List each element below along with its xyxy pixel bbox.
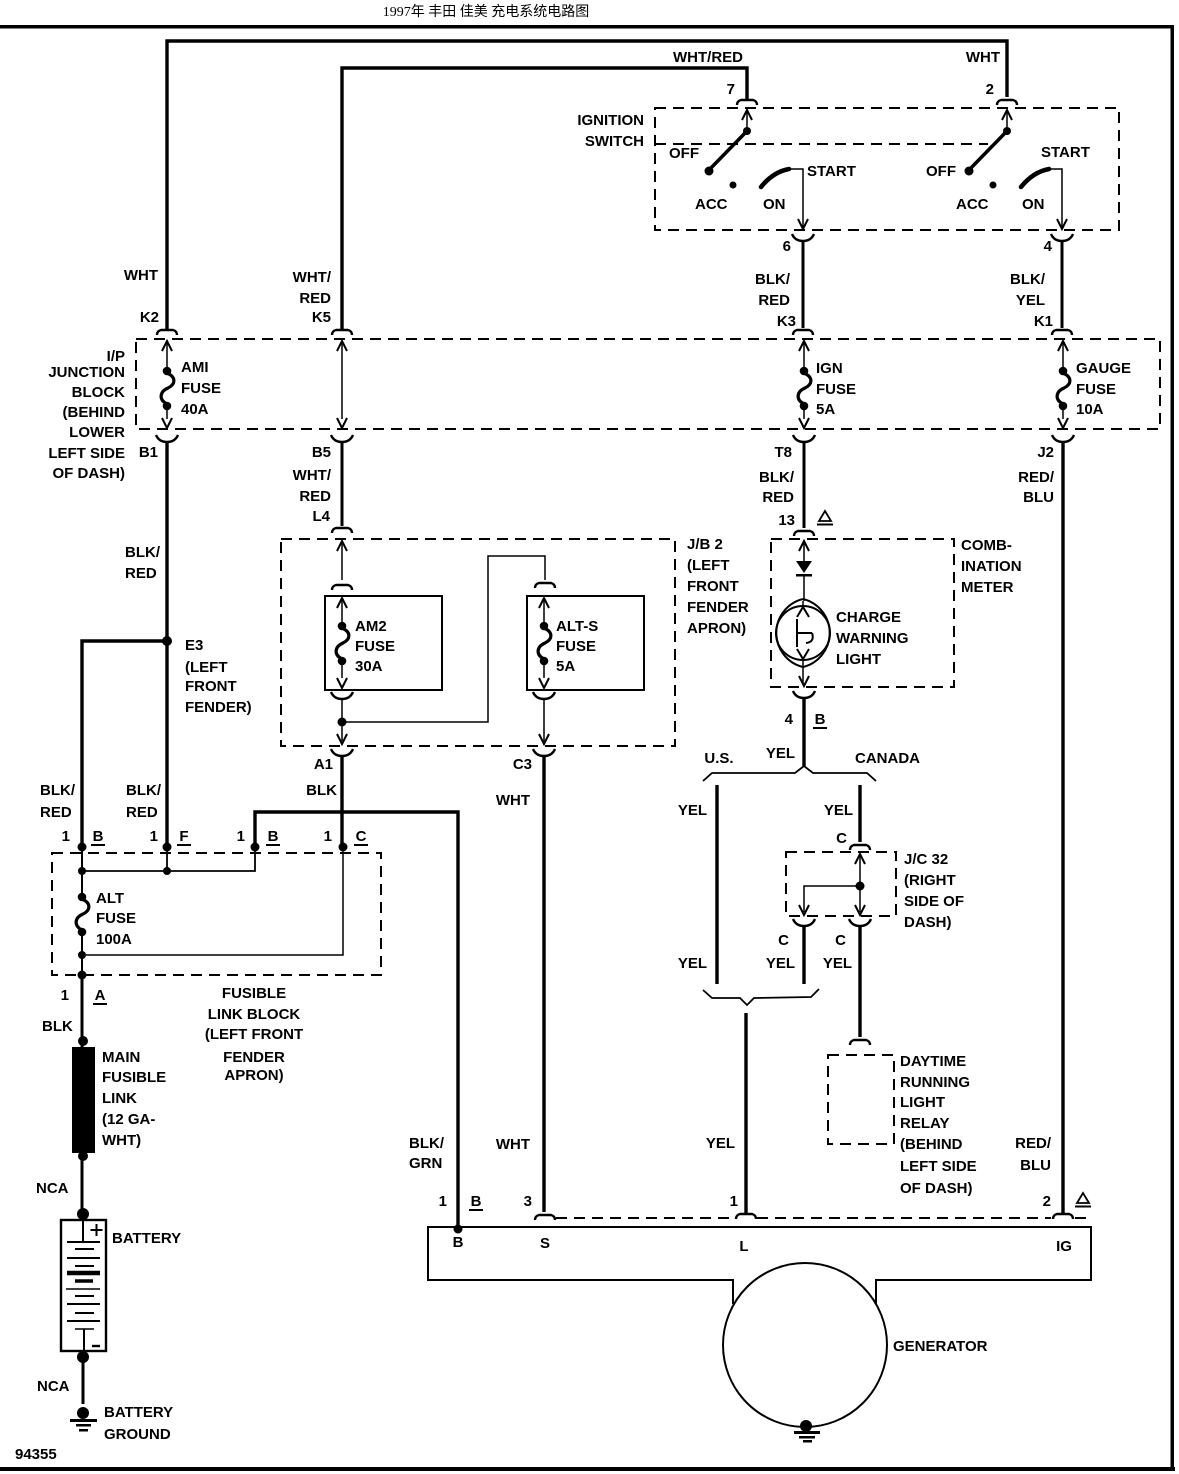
svg-text:FUSIBLE: FUSIBLE (102, 1069, 166, 1086)
svg-text:L: L (739, 1238, 748, 1255)
svg-text:FENDER: FENDER (223, 1049, 285, 1066)
svg-text:FUSE: FUSE (355, 638, 395, 655)
svg-text:IGNITION: IGNITION (577, 112, 644, 129)
fuse ALT-S 5A (538, 598, 551, 688)
svg-text:4: 4 (1044, 238, 1053, 255)
svg-text:GRN: GRN (409, 1155, 442, 1172)
AM2 fuse box (325, 596, 442, 690)
connector J2 (1052, 435, 1074, 442)
svg-text:APRON): APRON) (687, 620, 746, 637)
wire stub 1F to bus (166, 849, 168, 871)
svg-text:FUSE: FUSE (816, 381, 856, 398)
ALT-S fuse box (527, 596, 644, 690)
svg-text:INATION: INATION (961, 558, 1022, 575)
svg-text:GENERATOR: GENERATOR (893, 1338, 988, 1355)
svg-text:LIGHT: LIGHT (900, 1094, 945, 1111)
svg-text:B5: B5 (312, 444, 331, 461)
node bus junction at ALT fuse (78, 867, 86, 875)
svg-text:4: 4 (785, 711, 794, 728)
node battery negative post (77, 1351, 89, 1363)
svg-text:FUSE: FUSE (96, 910, 136, 927)
wire WHT/RED from K5 to ignition switch terminal 7 (342, 68, 747, 330)
connector K3 (793, 330, 813, 335)
svg-text:METER: METER (961, 579, 1014, 596)
marker triangle A (13) (817, 511, 833, 525)
svg-text:FUSE: FUSE (181, 380, 221, 397)
wire BLK/YEL 4 to K1 (1061, 242, 1064, 328)
svg-text:BLK/: BLK/ (759, 469, 795, 486)
wire YEL left out (802, 927, 805, 984)
svg-text:LINK BLOCK: LINK BLOCK (208, 1006, 301, 1023)
wire YEL from B down to split (802, 699, 805, 766)
connector below ALT-S (533, 692, 555, 699)
svg-text:WHT/: WHT/ (293, 269, 332, 286)
svg-text:YEL: YEL (678, 802, 707, 819)
svg-text:L4: L4 (312, 508, 330, 525)
node terminal 1B (ALT fuse input) (78, 843, 87, 852)
svg-text:LOWER: LOWER (69, 424, 125, 441)
svg-text:FENDER): FENDER) (185, 699, 252, 716)
fusible link block label (205, 985, 303, 1084)
node junction C line / ALT output (78, 951, 86, 959)
ignition switch SW1 (left) (705, 110, 809, 229)
ignition switch box (655, 108, 1119, 230)
fuse IGN 5A (798, 341, 811, 428)
wire BLK/RED E3 branch left (82, 641, 167, 847)
svg-text:C: C (836, 830, 847, 847)
fuse GAUGE 10A (1057, 341, 1070, 428)
node terminal 1B (to generator B) (251, 843, 260, 852)
junction node below AM2 (338, 718, 347, 727)
connector daytime running light relay (850, 1040, 870, 1045)
svg-text:MAIN: MAIN (102, 1049, 140, 1066)
svg-text:FENDER: FENDER (687, 599, 749, 616)
svg-text:RED: RED (126, 804, 158, 821)
svg-text:ALT-S: ALT-S (556, 618, 598, 635)
wire YEL right out (858, 927, 861, 1037)
daytime running light relay box (828, 1055, 894, 1144)
svg-text:WHT/RED: WHT/RED (673, 49, 743, 66)
wire out of combination meter (799, 676, 809, 686)
svg-text:WHT): WHT) (102, 1132, 141, 1149)
connector terminal 2 (997, 100, 1017, 105)
svg-text:START: START (807, 163, 856, 180)
svg-text:BLK: BLK (306, 782, 337, 799)
svg-text:5A: 5A (816, 401, 835, 418)
J/B 2 label (687, 536, 749, 637)
svg-text:T8: T8 (774, 444, 792, 461)
J/B 2 box (281, 539, 675, 746)
svg-text:C: C (778, 932, 789, 949)
svg-text:OFF: OFF (669, 145, 699, 162)
generator connector dashed line (556, 1217, 1091, 1219)
svg-text:1997年 丰田 佳美 充电系统电路图: 1997年 丰田 佳美 充电系统电路图 (383, 4, 590, 20)
svg-text:DAYTIME: DAYTIME (900, 1053, 966, 1070)
svg-text:YEL: YEL (766, 745, 795, 762)
generator circle (723, 1263, 887, 1427)
svg-text:S: S (540, 1235, 550, 1252)
connector A1 (331, 749, 353, 756)
svg-text:I/P: I/P (107, 348, 125, 365)
charge warning light bulb (776, 599, 830, 684)
svg-text:B: B (93, 828, 104, 845)
wire AM2 node to J/B2 bottom (341, 726, 343, 741)
svg-text:1: 1 (324, 828, 332, 845)
svg-text:A: A (95, 987, 106, 1004)
svg-text:K3: K3 (777, 313, 796, 330)
svg-text:LINK: LINK (102, 1090, 137, 1107)
svg-text:BLU: BLU (1020, 1157, 1051, 1174)
svg-text:A1: A1 (314, 756, 333, 773)
fusible link block box (52, 853, 381, 975)
svg-text:NCA: NCA (37, 1378, 70, 1395)
svg-text:LEFT SIDE: LEFT SIDE (900, 1158, 977, 1175)
svg-text:C3: C3 (513, 756, 532, 773)
J/C 32 box (786, 852, 896, 916)
svg-text:2: 2 (986, 81, 994, 98)
wire generator B to fusible link B (255, 812, 458, 1227)
svg-text:RED: RED (758, 292, 790, 309)
wire K5 to B5 through block (337, 341, 347, 428)
svg-text:J/C 32: J/C 32 (904, 851, 948, 868)
connector B1 (156, 435, 178, 442)
wire WHT C3 down to generator S (542, 757, 545, 1212)
svg-text:1: 1 (237, 828, 245, 845)
svg-text:BLK: BLK (42, 1018, 73, 1035)
svg-text:U.S.: U.S. (704, 750, 733, 767)
wire YEL CANADA branch (858, 785, 861, 842)
svg-text:YEL: YEL (678, 955, 707, 972)
I/P junction block box (136, 339, 1160, 429)
svg-text:WARNING: WARNING (836, 630, 909, 647)
svg-text:C: C (356, 828, 367, 845)
connector K1 (1052, 330, 1072, 335)
ignition switch SW2 (right) (965, 110, 1068, 229)
wire WHT/RED B5 to L4 (341, 443, 344, 526)
svg-text:GROUND: GROUND (104, 1426, 171, 1443)
svg-text:YEL: YEL (823, 955, 852, 972)
svg-text:B: B (815, 711, 826, 728)
svg-text:JUNCTION: JUNCTION (48, 364, 125, 381)
node generator B terminal (454, 1225, 463, 1234)
svg-text:RUNNING: RUNNING (900, 1074, 970, 1091)
connector C (right out) (849, 919, 871, 926)
svg-text:100A: 100A (96, 931, 132, 948)
svg-text:YEL: YEL (766, 955, 795, 972)
node battery positive post (77, 1208, 89, 1220)
wire NCA battery to ground (82, 1357, 85, 1404)
node E3 (162, 636, 172, 646)
connector K2 (157, 330, 177, 335)
connector below AM2 (331, 692, 353, 699)
connector T8 (793, 435, 815, 442)
node splice above main fusible link (78, 1036, 88, 1046)
svg-text:IGN: IGN (816, 360, 843, 377)
svg-text:APRON): APRON) (224, 1067, 283, 1084)
svg-text:BLOCK: BLOCK (72, 384, 125, 401)
svg-text:40A: 40A (181, 401, 209, 418)
wire L4 into J/B2 (337, 541, 347, 580)
svg-text:ALT: ALT (96, 890, 124, 907)
svg-text:(LEFT: (LEFT (185, 659, 228, 676)
svg-text:30A: 30A (355, 658, 383, 675)
svg-text:E3: E3 (185, 637, 203, 654)
connector K5 (332, 330, 352, 335)
svg-text:FRONT: FRONT (185, 678, 237, 695)
svg-text:WHT/: WHT/ (293, 467, 332, 484)
svg-text:YEL: YEL (824, 802, 853, 819)
wire YEL U.S. branch (715, 785, 718, 984)
wire into combination meter (799, 541, 809, 561)
svg-text:(BEHIND: (BEHIND (63, 404, 126, 421)
svg-text:DASH): DASH) (904, 914, 952, 931)
page right border (1171, 25, 1175, 1471)
svg-text:ACC: ACC (695, 196, 728, 213)
svg-text:LEFT SIDE: LEFT SIDE (48, 445, 125, 462)
svg-text:FUSIBLE: FUSIBLE (222, 985, 286, 1002)
svg-text:BLK/: BLK/ (40, 782, 76, 799)
svg-text:94355: 94355 (15, 1446, 57, 1463)
svg-text:(RIGHT: (RIGHT (904, 872, 956, 889)
svg-text:13: 13 (778, 512, 795, 529)
svg-text:K5: K5 (312, 309, 331, 326)
svg-text:WHT: WHT (496, 792, 530, 809)
svg-text:K1: K1 (1034, 313, 1053, 330)
svg-text:2: 2 (1043, 1193, 1051, 1210)
svg-text:RED: RED (125, 565, 157, 582)
fuse AMI 40A (161, 341, 174, 428)
svg-text:RED: RED (299, 290, 331, 307)
J/C 32 internal wires (799, 854, 865, 915)
generator box (428, 1227, 1091, 1280)
svg-text:K2: K2 (140, 309, 159, 326)
svg-text:YEL: YEL (706, 1135, 735, 1152)
connector ALT-S holder (535, 583, 555, 588)
svg-text:OF DASH): OF DASH) (53, 465, 126, 482)
wire into ALT fuse (81, 849, 83, 897)
svg-text:(LEFT FRONT: (LEFT FRONT (205, 1026, 303, 1043)
svg-text:FUSE: FUSE (556, 638, 596, 655)
svg-text:BATTERY: BATTERY (112, 1230, 181, 1247)
svg-text:AMI: AMI (181, 359, 209, 376)
svg-text:WHT: WHT (124, 267, 158, 284)
wire BLK/RED T8 to 13 (803, 443, 806, 528)
svg-text:FRONT: FRONT (687, 578, 739, 595)
page bottom border (0, 1467, 1175, 1471)
connector AM2 holder (332, 585, 352, 590)
node splice below main fusible link (78, 1151, 88, 1161)
svg-text:BLK/: BLK/ (1010, 271, 1046, 288)
svg-text:C: C (835, 932, 846, 949)
wire internal bus (fusible link block) (82, 849, 255, 871)
svg-text:ON: ON (1022, 196, 1045, 213)
battery ground (70, 1407, 97, 1432)
wire BLK to battery (81, 975, 84, 1220)
connector C (left out) (793, 919, 815, 926)
svg-text:BLU: BLU (1023, 489, 1054, 506)
wire BLK/RED 6 to K3 (802, 242, 805, 328)
connector terminal 6 (792, 234, 814, 241)
wire feeder to ALT-S fuse (342, 556, 545, 722)
svg-text:3: 3 (524, 1193, 532, 1210)
svg-text:1: 1 (730, 1193, 738, 1210)
generator ground (794, 1420, 820, 1443)
svg-text:SWITCH: SWITCH (585, 133, 644, 150)
svg-text:BLK/: BLK/ (125, 544, 161, 561)
svg-text:NCA: NCA (36, 1180, 69, 1197)
merge brace (703, 989, 819, 1005)
svg-text:FUSE: FUSE (1076, 381, 1116, 398)
svg-text:(BEHIND: (BEHIND (900, 1136, 963, 1153)
svg-text:WHT: WHT (496, 1136, 530, 1153)
connector C3 (533, 749, 555, 756)
svg-text:1: 1 (150, 828, 158, 845)
svg-text:IG: IG (1056, 1238, 1072, 1255)
svg-text:1: 1 (62, 828, 70, 845)
wire YEL merged to generator L (744, 1013, 747, 1213)
svg-text:GAUGE: GAUGE (1076, 360, 1131, 377)
svg-text:RELAY: RELAY (900, 1115, 949, 1132)
svg-text:BATTERY: BATTERY (104, 1404, 173, 1421)
svg-text:J2: J2 (1037, 444, 1054, 461)
svg-text:RED/: RED/ (1015, 1135, 1052, 1152)
node bus junction at 1F (163, 867, 171, 875)
page top border (0, 25, 1174, 29)
connector 4 B (793, 691, 815, 698)
svg-text:RED/: RED/ (1018, 469, 1055, 486)
wire ALT fuse to bottom (81, 932, 83, 975)
svg-text:START: START (1041, 144, 1090, 161)
connector L4 (332, 528, 352, 533)
battery BAT1 (61, 1220, 106, 1351)
fuse ALT 100A (76, 893, 89, 937)
svg-text:SIDE OF: SIDE OF (904, 893, 964, 910)
combination meter box (771, 539, 954, 687)
svg-text:AM2: AM2 (355, 618, 387, 635)
node terminal 1A (78, 971, 87, 980)
svg-text:BLK/: BLK/ (126, 782, 162, 799)
svg-text:(LEFT: (LEFT (687, 557, 730, 574)
connector terminal 4 (1051, 234, 1073, 241)
svg-text:6: 6 (783, 238, 791, 255)
svg-text:RED: RED (40, 804, 72, 821)
svg-text:10A: 10A (1076, 401, 1104, 418)
svg-text:OFF: OFF (926, 163, 956, 180)
svg-text:COMB-: COMB- (961, 537, 1012, 554)
svg-text:BLK/: BLK/ (409, 1135, 445, 1152)
wire BLK A1 down (340, 757, 343, 847)
wire BLK/RED B1 down to fusible link block (165, 443, 168, 847)
I/P junction block label (48, 348, 125, 482)
svg-text:CANADA: CANADA (855, 750, 920, 767)
wire WHT from K2 to ignition switch terminal 2 (167, 41, 1007, 330)
connector terminal 7 (737, 100, 757, 105)
wire from C terminal to ALT fuse output (86, 849, 343, 955)
svg-text:B: B (268, 828, 279, 845)
svg-text:(12 GA-: (12 GA- (102, 1111, 155, 1128)
svg-text:1: 1 (439, 1193, 447, 1210)
diode (796, 561, 812, 601)
svg-text:BLK/: BLK/ (755, 271, 791, 288)
main fusible link (72, 1047, 95, 1153)
svg-text:YEL: YEL (1016, 292, 1045, 309)
split brace US/CANADA (703, 766, 876, 781)
svg-text:CHARGE: CHARGE (836, 609, 901, 626)
wire RED/BLU J2 down to generator IG (1061, 443, 1064, 1213)
svg-text:5A: 5A (556, 658, 575, 675)
node terminal 1C (from A1) (339, 843, 348, 852)
svg-text:F: F (179, 828, 188, 845)
svg-text:7: 7 (727, 81, 735, 98)
svg-text:OF DASH): OF DASH) (900, 1180, 973, 1197)
connector 13 (794, 531, 814, 536)
fuse AM2 30A (336, 598, 349, 688)
svg-text:RED: RED (762, 489, 794, 506)
svg-text:RED: RED (299, 488, 331, 505)
svg-text:ON: ON (763, 196, 786, 213)
svg-text:B: B (453, 1234, 464, 1251)
node terminal 1F (from E3) (163, 843, 172, 852)
svg-text:LIGHT: LIGHT (836, 651, 881, 668)
svg-text:B1: B1 (139, 444, 158, 461)
svg-text:ACC: ACC (956, 196, 989, 213)
svg-text:B: B (471, 1193, 482, 1210)
svg-text:WHT: WHT (966, 49, 1000, 66)
svg-text:1: 1 (61, 987, 69, 1004)
svg-text:J/B 2: J/B 2 (687, 536, 723, 553)
connector B5 (331, 435, 353, 442)
